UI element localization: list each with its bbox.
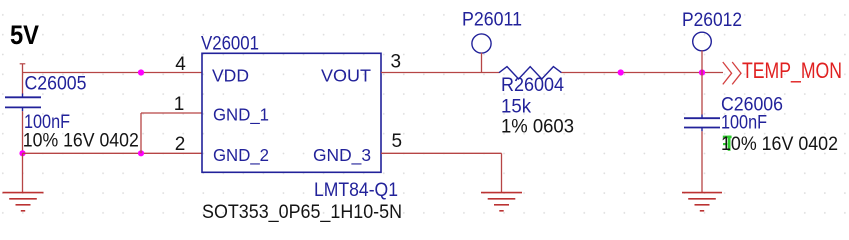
svg-text:P26012: P26012 — [682, 10, 742, 31]
junction dot on 5V rail — [138, 69, 144, 75]
wire capacitor C26005 top lead — [22, 73, 24, 94]
svg-text:SOT353_0P65_1H10-5N: SOT353_0P65_1H10-5N — [202, 202, 402, 223]
wire resistor to TEMP_MON — [562, 72, 724, 74]
svg-text:2: 2 — [175, 134, 186, 155]
svg-text:15k: 15k — [501, 97, 531, 118]
svg-text:C26005: C26005 — [25, 74, 87, 95]
ground (middle, GND_3) — [481, 193, 522, 211]
svg-text:3: 3 — [391, 52, 402, 73]
svg-text:5: 5 — [392, 131, 403, 152]
svg-text:GND_2: GND_2 — [213, 145, 269, 166]
svg-text:10% 16V 0402: 10% 16V 0402 — [23, 131, 139, 152]
resistor R26004 — [499, 67, 574, 138]
green highlight mark — [723, 136, 732, 151]
wire GND_3 pin 5 row — [381, 152, 502, 154]
net label TEMP_MON off-page connector — [723, 58, 842, 84]
svg-text:100nF: 100nF — [721, 113, 767, 134]
wire GND_1 to GND_2 vertical tie — [140, 113, 142, 153]
wire capacitor C26005 bottom lead — [22, 111, 24, 153]
junction dot mid wire — [618, 69, 624, 75]
test point P26012 — [682, 10, 742, 73]
svg-text:VDD: VDD — [212, 66, 249, 86]
svg-text:TEMP_MON: TEMP_MON — [742, 58, 842, 83]
IC V26001 LMT84-Q1 body — [202, 53, 381, 172]
svg-text:R26004: R26004 — [501, 75, 564, 96]
svg-text:VOUT: VOUT — [321, 66, 371, 86]
svg-text:V26001: V26001 — [201, 34, 259, 55]
capacitor C26005 — [5, 74, 139, 152]
svg-text:4: 4 — [175, 54, 186, 75]
svg-text:1: 1 — [174, 94, 185, 115]
wire GND_3 down to ground — [501, 153, 503, 192]
wire down to left ground — [22, 153, 24, 192]
power symbol 5V — [10, 20, 39, 73]
svg-text:GND_3: GND_3 — [313, 145, 371, 166]
ground (right, under C26006) — [682, 193, 722, 211]
svg-text:1% 0603: 1% 0603 — [501, 117, 574, 138]
junction dot at P26012 / C26006 node — [699, 69, 705, 75]
junction dot at C26005 / GND_2 node — [19, 150, 25, 156]
wire capacitor C26006 bottom lead to ground — [701, 131, 703, 192]
wire GND_2 pin 2 row — [23, 152, 203, 154]
ground (left, under C26005) — [3, 193, 44, 211]
test point P26011 — [462, 10, 522, 73]
svg-text:LMT84-Q1: LMT84-Q1 — [314, 180, 398, 201]
junction dot at GND_1/GND_2 tie — [138, 150, 144, 156]
svg-text:GND_1: GND_1 — [213, 105, 269, 126]
wire capacitor C26006 top lead — [701, 73, 703, 115]
capacitor C26006 — [684, 95, 838, 156]
svg-text:P26011: P26011 — [462, 10, 522, 31]
svg-text:10% 16V 0402: 10% 16V 0402 — [721, 134, 838, 155]
wire GND_1 pin 1 row — [141, 112, 202, 114]
svg-text:5V: 5V — [10, 20, 39, 50]
wire 5V rail to VDD pin 4 — [23, 72, 203, 74]
wire VOUT pin 3 to resistor — [381, 72, 499, 74]
